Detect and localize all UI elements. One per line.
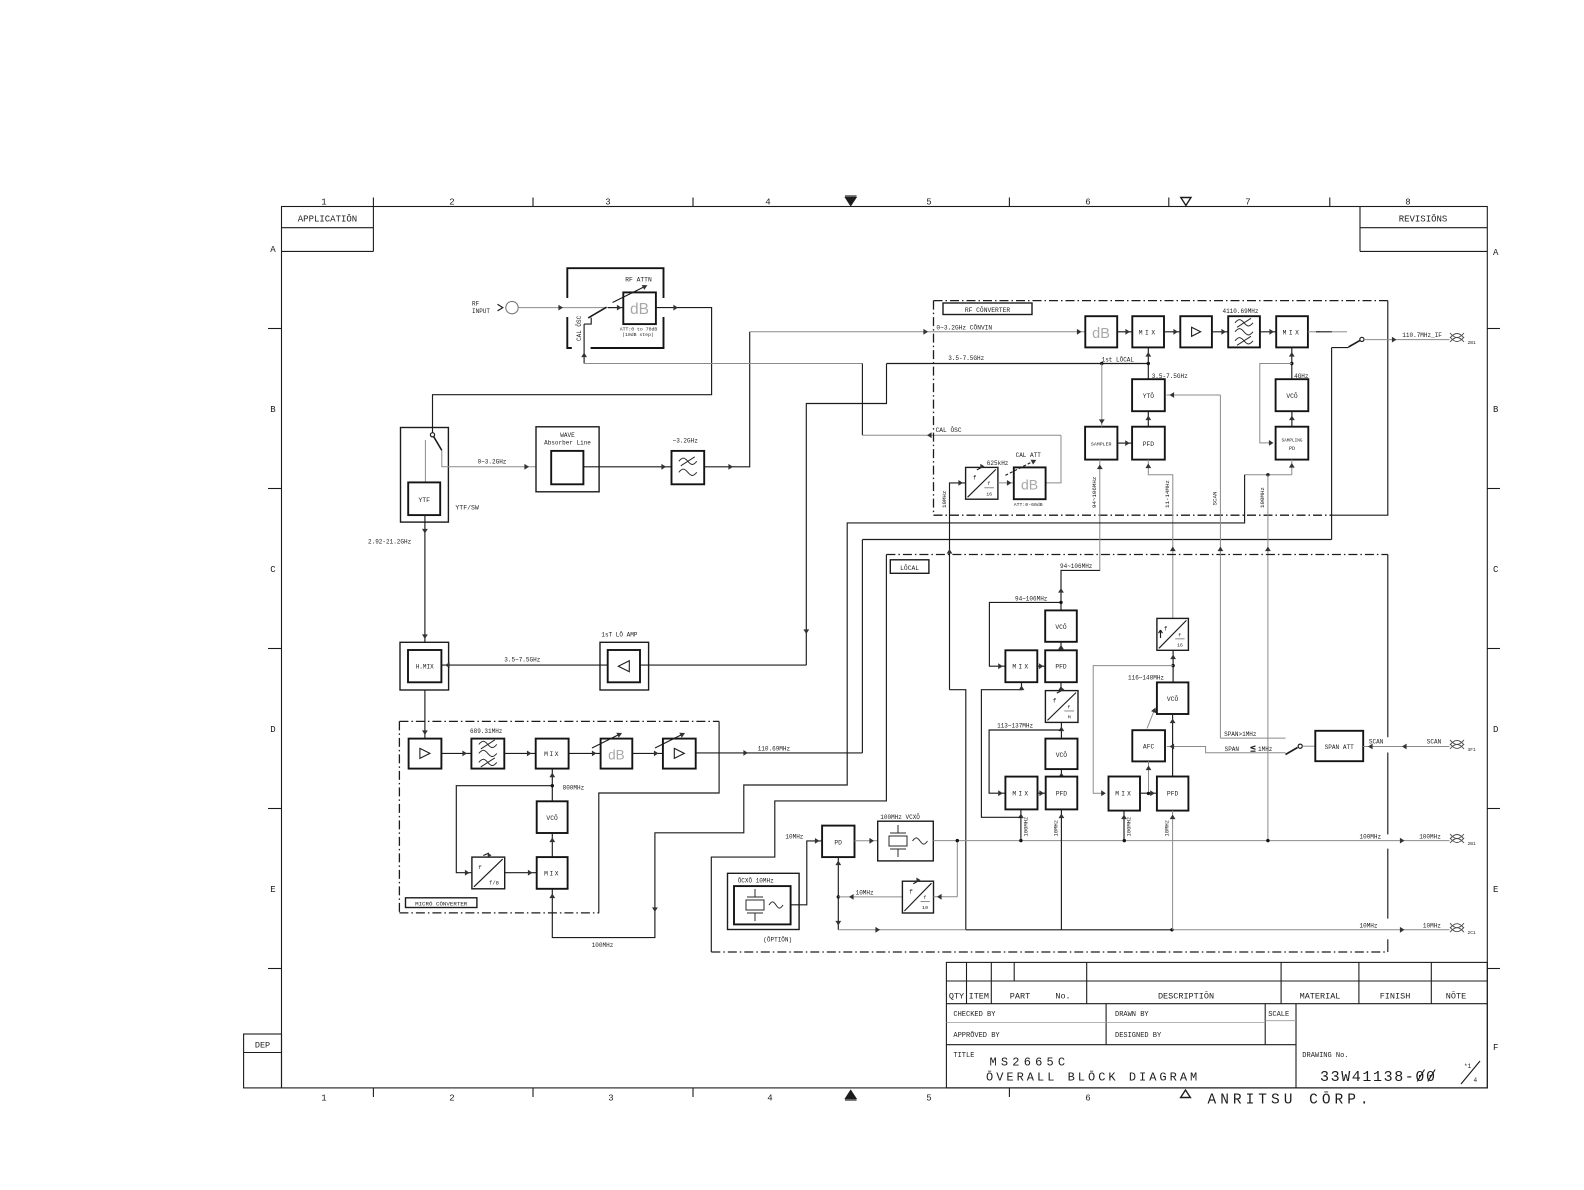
wire divider to CAL ATT xyxy=(998,482,1014,484)
svg-text:RF ATTN: RF ATTN xyxy=(625,277,652,284)
svg-text:3: 3 xyxy=(605,197,610,207)
svg-text:DESIGNED BY: DESIGNED BY xyxy=(1115,1032,1162,1040)
wire YTF bypass 0~3.2GHz xyxy=(442,450,536,466)
svg-text:110.69MHz: 110.69MHz xyxy=(758,745,791,752)
wire VCO3 tap to MIX3L xyxy=(1093,666,1173,794)
wire PD to VCXO xyxy=(855,840,878,842)
wire filter to MIX2 xyxy=(1260,331,1276,333)
RF ATTN variable arrow xyxy=(613,287,645,303)
wire 800MHz to divider f/8 xyxy=(456,786,552,873)
svg-text:No.: No. xyxy=(1055,991,1070,1001)
wire span switch to SPAN ATT xyxy=(1302,745,1315,747)
wire H.MIX to micro amp xyxy=(424,690,426,739)
wire YTF output to H.MIX xyxy=(424,515,426,642)
svg-text:SAMPLER: SAMPLER xyxy=(1091,442,1112,448)
SAMPLER block xyxy=(1085,427,1117,460)
svg-text:ATT:0 to 70dB: ATT:0 to 70dB xyxy=(620,326,658,332)
wire f/M to PFD1L xyxy=(1060,682,1062,690)
svg-text:100MHz VCXŌ: 100MHz VCXŌ xyxy=(880,814,920,821)
wire MIX3 to PFD3 xyxy=(1140,792,1157,794)
svg-text:8: 8 xyxy=(1405,197,1410,207)
svg-text:1sT LŌ AMP: 1sT LŌ AMP xyxy=(601,631,637,638)
wire 11-14MHz into PFD xyxy=(1148,460,1173,619)
YTF block xyxy=(408,482,440,515)
svg-text:PD: PD xyxy=(1289,446,1295,452)
svg-text:LŌCAL: LŌCAL xyxy=(900,564,919,572)
LOCAL solid left boundary staircase xyxy=(711,555,886,953)
wire dB to MIX1 xyxy=(1117,331,1132,333)
svg-text:B: B xyxy=(1493,405,1499,415)
SAMPLING PD block xyxy=(1276,427,1309,460)
RF INPUT connector circle xyxy=(506,301,518,313)
MICRO CONVERTER dashed boundary xyxy=(399,720,719,722)
LOCAL MIX3 block xyxy=(1109,777,1141,811)
LOCAL MIX2 block xyxy=(1005,777,1037,810)
svg-text:SPAN: SPAN xyxy=(1225,746,1240,753)
svg-text:VCŌ: VCŌ xyxy=(1167,695,1179,703)
svg-text:3.5~7.5GHz: 3.5~7.5GHz xyxy=(504,657,540,664)
3.2GHz low pass filter xyxy=(672,451,705,484)
RF INPUT chevron xyxy=(498,304,503,311)
svg-text:f: f xyxy=(1178,632,1181,638)
wire 10MHz reference riser xyxy=(950,690,966,930)
svg-text:dB: dB xyxy=(1021,477,1038,493)
svg-text:SPAN>1MHz: SPAN>1MHz xyxy=(1224,731,1257,738)
micro converter amp2 xyxy=(663,739,696,769)
micro converter MIX xyxy=(536,739,569,769)
svg-text:SPAN ATT: SPAN ATT xyxy=(1325,744,1355,751)
wire amp1 to filter xyxy=(441,752,471,754)
wire 10MHz into PFD3 xyxy=(1172,811,1174,930)
micro converter MIX2 xyxy=(537,857,568,889)
svg-text:0~3.2GHz CŌNVIN: 0~3.2GHz CŌNVIN xyxy=(936,324,992,331)
wire OCXO to PD xyxy=(791,841,823,905)
wire sampling PD to VCO xyxy=(1291,411,1293,427)
svg-text:MIX: MIX xyxy=(1139,329,1158,336)
wire CAL OSC horizontal from attenuator xyxy=(584,363,862,365)
svg-text:100MHz: 100MHz xyxy=(1259,487,1266,508)
svg-text:94~106MHz: 94~106MHz xyxy=(1015,596,1048,603)
LOCAL PFD3 block xyxy=(1157,777,1189,811)
wire PFD1L to VCO1 xyxy=(1060,642,1062,651)
PFD block RF converter xyxy=(1132,427,1165,460)
grid tick marks top edge xyxy=(372,198,374,207)
LOCAL label box xyxy=(890,560,929,574)
projection symbol top open triangle xyxy=(1181,198,1191,206)
svg-text:dB: dB xyxy=(1092,326,1110,342)
wire 100MHz into MIX2L xyxy=(1020,809,1022,840)
svg-text:MIX: MIX xyxy=(1115,791,1133,798)
LOCAL PFD1 block xyxy=(1045,650,1077,682)
wire PFD3 to VCO3 xyxy=(1172,714,1174,777)
svg-text:ITEM: ITEM xyxy=(969,991,989,1001)
wire 1st LO amp to H.MIX 3.5~7.5GHz xyxy=(441,664,607,666)
RF CONVERTER dashed boundary xyxy=(934,300,1388,302)
YTF/SW box xyxy=(401,428,449,523)
filter 4110.69MHz xyxy=(1228,316,1260,347)
svg-text:INPUT: INPUT xyxy=(472,308,490,315)
svg-text:100MHz: 100MHz xyxy=(1126,817,1133,837)
SPAN ATT block xyxy=(1315,731,1363,761)
svg-text:(10dB step): (10dB step) xyxy=(622,332,654,338)
svg-text:2B1: 2B1 xyxy=(1468,340,1477,346)
svg-text:f: f xyxy=(923,895,926,901)
attenuator switch arm xyxy=(588,307,606,318)
svg-text:2C1: 2C1 xyxy=(1468,930,1477,936)
svg-text:10MHz: 10MHz xyxy=(941,490,948,508)
svg-text:10MHz: 10MHz xyxy=(1360,923,1378,930)
svg-text:ANRITSU CŌRP.: ANRITSU CŌRP. xyxy=(1208,1092,1373,1109)
svg-text:WAVE: WAVE xyxy=(560,432,575,439)
svg-text:3: 3 xyxy=(608,1094,613,1104)
RF converter amp xyxy=(1180,316,1212,347)
svg-text:MICRŌ CŌNVERTER: MICRŌ CŌNVERTER xyxy=(415,900,468,907)
svg-text:1: 1 xyxy=(321,197,326,207)
svg-text:DESCRIPTIŌN: DESCRIPTIŌN xyxy=(1158,990,1214,1001)
svg-text:PD: PD xyxy=(834,839,842,846)
svg-text:f: f xyxy=(909,888,913,895)
amp2 variable arrow xyxy=(655,735,681,748)
wire SCAN input xyxy=(1363,746,1449,748)
svg-text:f: f xyxy=(1067,704,1070,710)
wire 1st LOCAL to SAMPLER xyxy=(1101,364,1103,427)
micro converter VCO xyxy=(537,801,568,833)
svg-text:6: 6 xyxy=(1085,1094,1090,1104)
svg-text:CAL ŌSC: CAL ŌSC xyxy=(936,427,962,434)
wire CAL OSC label line xyxy=(862,434,1061,436)
title block outer box xyxy=(946,962,1487,1088)
YTO block xyxy=(1132,379,1165,411)
OCXO crystal symbol xyxy=(754,889,756,897)
attenuator switch cal contact step xyxy=(584,318,591,325)
wire 110.69MHz output xyxy=(696,752,863,754)
REVISIONS title box xyxy=(1359,207,1361,252)
svg-text:MIX: MIX xyxy=(1283,329,1302,336)
wire attenuator output to YTF switch xyxy=(433,308,712,433)
svg-text:f: f xyxy=(973,474,977,481)
wire 10MHz into PFD2L xyxy=(1060,809,1062,929)
IF output switch pivot xyxy=(1360,337,1364,341)
svg-text:CAL ATT: CAL ATT xyxy=(1016,452,1042,459)
attenuator dB block xyxy=(623,292,656,324)
projection symbol top filled triangle xyxy=(846,198,857,206)
wire SCAN riser xyxy=(1219,395,1221,738)
svg-text:MIX: MIX xyxy=(1012,791,1030,798)
svg-text:16: 16 xyxy=(1177,642,1183,648)
svg-text:MATERIAL: MATERIAL xyxy=(1300,991,1341,1001)
RF CONVERTER label box xyxy=(943,303,1032,315)
svg-text:ATT:0-60dB: ATT:0-60dB xyxy=(1014,502,1043,508)
svg-text:PFD: PFD xyxy=(1167,791,1179,798)
svg-text:116~148MHz: 116~148MHz xyxy=(1128,675,1164,682)
svg-text:f: f xyxy=(478,864,482,871)
svg-text:A: A xyxy=(270,245,276,255)
micro dB variable arrow xyxy=(592,735,618,748)
svg-text:M: M xyxy=(1068,715,1071,721)
svg-text:100MHz: 100MHz xyxy=(1360,833,1382,840)
svg-text:4110.69MHz: 4110.69MHz xyxy=(1222,308,1258,315)
wire micro MIX LO 800MHz xyxy=(551,769,553,802)
svg-text:Absorber Line: Absorber Line xyxy=(544,439,591,446)
svg-text:10MHz: 10MHz xyxy=(1423,923,1441,930)
svg-text:3.5-7.5GHz: 3.5-7.5GHz xyxy=(948,355,984,362)
LOCAL dashed boundary top xyxy=(886,554,1387,556)
wire CAL OSC corner to label line xyxy=(861,364,863,436)
wire VCO3 output to divider xyxy=(1172,650,1174,682)
svg-text:FINISH: FINISH xyxy=(1380,991,1411,1001)
span switch pivot xyxy=(1298,744,1302,748)
svg-text:94~106MHz: 94~106MHz xyxy=(1060,563,1093,570)
svg-text:APPRŌVED BY: APPRŌVED BY xyxy=(953,1031,1000,1040)
micro converter amp1 xyxy=(409,739,442,769)
svg-text:(ŌPTIŌN): (ŌPTIŌN) xyxy=(763,936,792,943)
wire filter to RF converter CONVIN xyxy=(704,332,750,467)
wire 10MHz bus xyxy=(966,929,1172,931)
svg-text:7: 7 xyxy=(1245,197,1250,207)
svg-text:A: A xyxy=(1493,248,1499,258)
svg-text:B: B xyxy=(270,405,276,415)
svg-text:MIX: MIX xyxy=(544,871,560,878)
svg-text:VCŌ: VCŌ xyxy=(1055,623,1067,631)
wire filter to micro MIX xyxy=(504,752,535,754)
svg-text:4: 4 xyxy=(765,197,770,207)
drawing frame border xyxy=(282,207,1488,1088)
divider f/M block xyxy=(1045,691,1078,723)
connector 2B1 IF out xyxy=(1450,333,1464,338)
svg-text:2.92-21.2GHz: 2.92-21.2GHz xyxy=(368,539,412,546)
svg-text:NŌTE: NŌTE xyxy=(1446,990,1466,1001)
LOCAL MIX1 block xyxy=(1005,650,1037,682)
LOCAL VCO1 block xyxy=(1045,610,1077,641)
svg-text:2B1: 2B1 xyxy=(1468,841,1477,847)
MICRO CONVERTER solid boundary step xyxy=(599,721,719,913)
svg-text:f: f xyxy=(1053,698,1057,705)
svg-text:10: 10 xyxy=(922,905,928,911)
wire 100MHz riser from bus xyxy=(1267,475,1269,841)
1st LO AMP triangle xyxy=(618,661,629,672)
svg-text:C: C xyxy=(270,565,276,575)
svg-text:3F1: 3F1 xyxy=(1468,747,1477,753)
grid tick marks bottom edge xyxy=(372,1088,374,1097)
svg-text:CAL ŌSC: CAL ŌSC xyxy=(576,315,583,341)
RF converter dB block U10 xyxy=(1085,316,1117,347)
svg-text:2: 2 xyxy=(449,197,454,207)
svg-text:F: F xyxy=(1493,1043,1498,1053)
svg-text:1MHz: 1MHz xyxy=(1258,746,1273,753)
divider f/10 block xyxy=(902,881,933,913)
svg-text:0~3.2GHz: 0~3.2GHz xyxy=(478,458,507,465)
wire MIX1 LO input from YTO xyxy=(1147,347,1149,379)
svg-text:REVISIŌNS: REVISIŌNS xyxy=(1399,214,1448,225)
divider f/16 block local xyxy=(1157,618,1189,650)
AFC block xyxy=(1132,730,1165,761)
1st LO AMP inner box xyxy=(608,650,640,682)
wire MIX2L to PFD2L xyxy=(1038,792,1046,794)
svg-text:689.31MHz: 689.31MHz xyxy=(470,728,503,735)
wire CAL OSC into attenuator xyxy=(583,324,585,363)
svg-text:RF CŌNVERTER: RF CŌNVERTER xyxy=(965,306,1011,314)
wire 110.7MHz IF output xyxy=(1364,339,1450,341)
svg-text:MS2665C: MS2665C xyxy=(990,1056,1070,1070)
micro converter dB attenuator xyxy=(601,739,633,769)
svg-text:MIX: MIX xyxy=(544,751,560,758)
wire wave absorber to 3.2GHz filter xyxy=(583,466,671,468)
CAL ATT dB block xyxy=(1014,467,1046,499)
svg-text:PFD: PFD xyxy=(1143,441,1155,448)
VCO 4GHz block xyxy=(1276,379,1309,411)
wire YTF switch to YTF xyxy=(424,440,426,482)
svg-text:MIX: MIX xyxy=(1012,664,1030,671)
AFC variable arrow to VCO3 xyxy=(1147,711,1154,729)
svg-text:4: 4 xyxy=(767,1094,772,1104)
LOCAL right boundary with gaps xyxy=(1387,555,1389,738)
wire switch to dB block xyxy=(608,307,623,309)
RF converter MIX1 xyxy=(1132,316,1164,347)
WAVE absorber inner box xyxy=(551,451,583,484)
LOCAL VCO3 block xyxy=(1157,682,1189,714)
parts list table lines xyxy=(946,980,1487,982)
svg-text:PFD: PFD xyxy=(1056,791,1068,798)
OCXO outer box xyxy=(728,873,800,929)
wire MIX1L to PFD1L xyxy=(1037,665,1045,667)
svg-text:ŌCXŌ 10MHz: ŌCXŌ 10MHz xyxy=(738,878,774,885)
wire 10MHz into divider xyxy=(950,483,966,690)
svg-text:VCŌ: VCŌ xyxy=(1056,751,1068,759)
YTF switch pivot xyxy=(430,433,434,437)
svg-text:625kHz: 625kHz xyxy=(987,460,1009,467)
wire 113~137MHz feedback to MIX2L xyxy=(989,730,1061,793)
wire SCAN into YTO xyxy=(1167,394,1221,396)
wire amp to filter xyxy=(1212,331,1228,333)
wire AFC from MIX3 PFD3 node xyxy=(1148,761,1150,793)
svg-text:110.7MHz_IF: 110.7MHz_IF xyxy=(1402,332,1442,339)
svg-text:SCAN: SCAN xyxy=(1212,491,1219,505)
H.MIX inner box xyxy=(408,650,441,682)
OCXO inner box xyxy=(734,886,791,924)
DEP box lower left xyxy=(244,1034,282,1088)
wire MIX1 to amp xyxy=(1164,331,1180,333)
wire RF input to attenuator switch xyxy=(518,307,612,309)
wire 100MHz into MIX3 xyxy=(1123,811,1125,841)
CAL ATT variable arrow xyxy=(1005,462,1032,476)
VCXO box xyxy=(878,821,934,861)
svg-text:H.MIX: H.MIX xyxy=(416,664,434,671)
wire micro MIX2 to VCO xyxy=(551,833,553,857)
svg-text:SCALE: SCALE xyxy=(1268,1011,1289,1019)
projection symbol bottom filled triangle xyxy=(846,1091,857,1099)
svg-text:ŌVERALL BLŌCK DIAGRAM: ŌVERALL BLŌCK DIAGRAM xyxy=(986,1070,1200,1085)
connector 3F1 SCAN xyxy=(1450,740,1464,745)
WAVE absorber line outer box xyxy=(536,427,599,492)
span switch arm xyxy=(1286,748,1298,755)
svg-text:PFD: PFD xyxy=(1055,664,1067,671)
svg-text:6: 6 xyxy=(1085,197,1090,207)
wire SPAN>1MHz to SCAN riser xyxy=(1220,737,1285,739)
divider f/8 block xyxy=(472,857,505,889)
svg-text:2: 2 xyxy=(449,1094,454,1104)
svg-text:DEP: DEP xyxy=(255,1041,270,1051)
svg-text:10MHz: 10MHz xyxy=(856,889,874,896)
1st LO AMP outer box xyxy=(600,642,649,690)
grid tick marks left edge xyxy=(268,328,282,330)
wire 100MHz bus xyxy=(933,840,1449,842)
svg-text:SCAN: SCAN xyxy=(1427,739,1442,746)
svg-text:f: f xyxy=(1164,626,1168,633)
svg-text:~3.2GHz: ~3.2GHz xyxy=(673,437,699,444)
svg-text:D: D xyxy=(1493,725,1498,735)
svg-text:SCAN: SCAN xyxy=(1369,739,1384,746)
svg-text:5: 5 xyxy=(926,197,931,207)
wire PFD to YTO xyxy=(1147,411,1149,427)
RF CONVERTER solid right boundary xyxy=(1332,301,1388,516)
svg-text:dB: dB xyxy=(608,748,625,763)
filter 689.31MHz xyxy=(471,739,504,769)
RF ATTN assembly box xyxy=(567,268,663,298)
wire PFD2L to VCO2 xyxy=(1060,769,1062,777)
svg-text:100MHz: 100MHz xyxy=(1419,833,1441,840)
svg-text:D: D xyxy=(270,725,275,735)
svg-text:DRAWN BY: DRAWN BY xyxy=(1115,1011,1149,1019)
wire micro dB to amp2 xyxy=(632,752,663,754)
svg-text:113~137MHz: 113~137MHz xyxy=(997,722,1033,729)
LOCAL PFD2 block xyxy=(1046,777,1078,810)
svg-text:QTY: QTY xyxy=(949,991,964,1001)
svg-text:800MHz: 800MHz xyxy=(563,784,585,791)
APPLICATION title box xyxy=(282,227,374,229)
wire 110.69MHz and CAL to IF switch riser xyxy=(861,540,863,753)
wire PD feedback 10MHz xyxy=(837,857,839,930)
wire MIX2 tap to sampling PD xyxy=(1260,364,1292,443)
svg-text:4: 4 xyxy=(1474,1077,1478,1084)
svg-text:C: C xyxy=(1493,565,1499,575)
wire MIX2 LO from VCO 4GHz xyxy=(1291,347,1293,379)
signature rows lines xyxy=(946,1044,1296,1046)
wire PD to 10MHz bus xyxy=(838,929,966,931)
svg-text:VCŌ: VCŌ xyxy=(1286,392,1298,400)
svg-text:YTŌ: YTŌ xyxy=(1143,392,1155,400)
svg-text:10MHz: 10MHz xyxy=(1164,820,1171,837)
svg-text:E: E xyxy=(270,885,275,895)
svg-text:VCŌ: VCŌ xyxy=(546,814,558,822)
svg-text:1: 1 xyxy=(321,1094,326,1104)
wire 100MHz to micro converter staircase xyxy=(552,475,1244,938)
wire 94~106MHz into SAMPLER xyxy=(1099,460,1101,571)
wire 1st local feed to LO amp xyxy=(640,664,806,666)
connector 2C1 10MHz xyxy=(1450,923,1464,928)
H.MIX outer box xyxy=(400,642,449,690)
svg-text:100MHz: 100MHz xyxy=(592,942,614,949)
LOCAL VCO2 block xyxy=(1045,739,1077,770)
wire 100MHz into sampling PD xyxy=(1291,460,1293,475)
svg-text:dB: dB xyxy=(630,301,649,318)
svg-text:CHECKED BY: CHECKED BY xyxy=(953,1011,996,1019)
wire MIX2 output to IF switch xyxy=(1308,331,1320,333)
wire MIX to micro dB xyxy=(569,752,601,754)
connector 2B1 100MHz xyxy=(1450,834,1464,839)
svg-text:AFC: AFC xyxy=(1143,743,1155,750)
wire CAL ATT output riser xyxy=(1046,435,1061,483)
svg-text:APPLICATIŌN: APPLICATIŌN xyxy=(298,214,357,225)
LOCAL dashed boundary bottom xyxy=(711,951,1388,953)
wire 100MHz branch to MIX1L xyxy=(981,682,1021,817)
svg-text:10MHz: 10MHz xyxy=(1052,820,1059,837)
VCXO crystal symbol xyxy=(897,825,899,833)
wire 100MHz into f/10 xyxy=(934,896,958,898)
divider f/16 block 625kHz xyxy=(966,467,998,499)
svg-text:E: E xyxy=(1493,885,1498,895)
wire VCO1 output 94~106MHz to sampler riser xyxy=(1061,570,1100,610)
svg-text:YTF: YTF xyxy=(418,497,430,504)
